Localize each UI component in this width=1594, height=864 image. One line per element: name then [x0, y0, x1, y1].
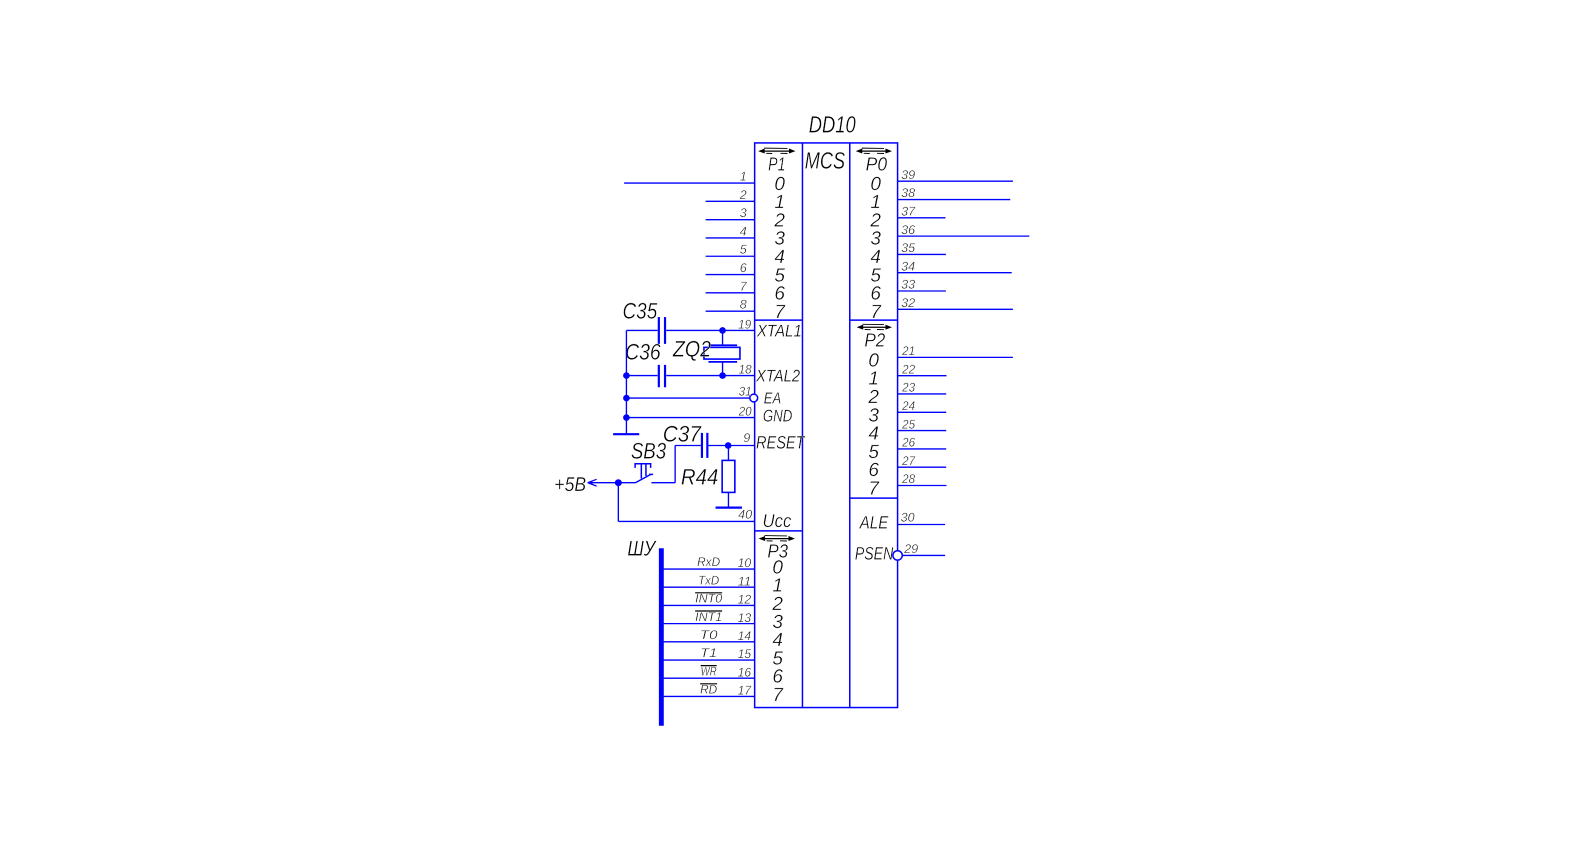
- svg-text:T0: T0: [700, 628, 718, 642]
- wire pin 21 (P2.0): [898, 356, 1013, 358]
- wire pin 18 (XTAL2) left segment: [626, 375, 657, 377]
- pushbutton SB3: [635, 464, 653, 483]
- signal label T0: [700, 628, 718, 642]
- svg-text:22: 22: [901, 362, 915, 376]
- svg-text:XTAL2: XTAL2: [755, 366, 801, 385]
- wire pin 36 (P0.3): [898, 235, 1030, 237]
- svg-text:7: 7: [870, 302, 882, 323]
- wire switch to vertical: [651, 482, 675, 484]
- svg-text:38: 38: [901, 186, 915, 200]
- svg-text:15: 15: [738, 647, 752, 661]
- svg-text:13: 13: [738, 611, 752, 625]
- svg-text:6: 6: [740, 261, 747, 275]
- svg-text:20: 20: [738, 404, 752, 418]
- wire pin 24 (P2.3): [898, 411, 947, 413]
- svg-text:21: 21: [901, 344, 915, 358]
- inversion bubble pin 31 (EA): [750, 394, 758, 402]
- svg-text:39: 39: [901, 168, 915, 182]
- inversion bubble pin 29 (PSEN): [893, 551, 902, 560]
- wire pin 20 (GND): [626, 417, 754, 419]
- junction +5V net: [615, 479, 622, 486]
- svg-text:TxD: TxD: [698, 573, 719, 587]
- svg-text:31: 31: [739, 385, 752, 399]
- svg-text:P1: P1: [768, 155, 785, 176]
- svg-text:RxD: RxD: [697, 555, 720, 569]
- svg-text:PSEN: PSEN: [855, 544, 894, 564]
- signal label RxD: [697, 555, 720, 569]
- wire pin 9 (RESET) cap-to-chip segment: [708, 444, 754, 446]
- svg-text:12: 12: [738, 593, 752, 607]
- wire pin 29 (PSEN): [902, 554, 945, 556]
- wire pin 40 (Ucc): [618, 520, 754, 522]
- svg-text:26: 26: [901, 436, 915, 450]
- wire pin 12 (P3.2 / INT0): [661, 604, 754, 606]
- svg-text:C37: C37: [663, 421, 703, 446]
- wire pin 11 (P3.1 / TxD): [661, 586, 754, 588]
- port P1 bit numbers 0-7: [773, 174, 786, 323]
- junction left net / pin31: [623, 395, 630, 402]
- port P0 bit numbers 0-7: [869, 174, 882, 323]
- wire pin 4 (P1.3): [706, 237, 755, 239]
- junction XTAL1/ZQ2: [719, 327, 726, 334]
- svg-text:ШУ: ШУ: [627, 537, 657, 561]
- svg-text:30: 30: [901, 511, 915, 525]
- svg-text:P0: P0: [866, 155, 888, 176]
- svg-text:23: 23: [901, 381, 915, 395]
- svg-text:RD: RD: [700, 683, 717, 697]
- svg-text:24: 24: [901, 399, 915, 413]
- wire left vertical (XTAL ground net): [625, 330, 627, 434]
- svg-text:MCS: MCS: [805, 148, 846, 174]
- wire pin 30 (ALE): [898, 524, 946, 526]
- wire pin 10 (P3.0 / RxD): [661, 568, 754, 570]
- junction left net / pin18: [623, 372, 630, 379]
- signal label TxD: [698, 573, 719, 587]
- svg-text:ZQ2: ZQ2: [672, 337, 711, 362]
- signal label T1: [700, 646, 717, 660]
- svg-text:+5В: +5В: [554, 474, 586, 496]
- svg-text:7: 7: [868, 478, 880, 499]
- svg-text:P2: P2: [864, 330, 885, 351]
- signal label WR: [701, 664, 717, 678]
- wire pin 3 (P1.2): [706, 219, 755, 221]
- wire pin 1 (P1.0): [624, 182, 755, 184]
- wire pin 15 (P3.5 / T1): [661, 659, 754, 661]
- port P2 bit numbers 0-7: [867, 350, 880, 499]
- svg-text:WR: WR: [701, 664, 717, 678]
- svg-text:C36: C36: [625, 340, 661, 365]
- wire pin 18 (XTAL2) right segment: [666, 375, 754, 377]
- svg-text:16: 16: [738, 665, 752, 679]
- wire pin 17 (P3.7 / RD): [661, 695, 754, 697]
- svg-text:INT0: INT0: [695, 592, 722, 606]
- svg-text:11: 11: [738, 574, 752, 588]
- wire pin 19 (XTAL1) left segment: [626, 329, 657, 331]
- wire pin 32 (P0.7): [898, 308, 1013, 310]
- svg-text:GND: GND: [763, 406, 793, 425]
- ground (R44): [716, 507, 742, 509]
- svg-text:10: 10: [738, 556, 752, 570]
- svg-text:37: 37: [901, 205, 916, 219]
- svg-text:35: 35: [901, 241, 915, 255]
- wire pin 26 (P2.5): [898, 448, 947, 450]
- IC DD10 body outline: [755, 143, 898, 708]
- resistor R44: [722, 445, 735, 507]
- wire pin 37 (P0.2): [898, 217, 946, 219]
- wire pin 13 (P3.3 / INT1): [661, 623, 754, 625]
- wire pin 23 (P2.2): [898, 393, 947, 395]
- svg-text:5: 5: [740, 243, 747, 257]
- svg-text:17: 17: [738, 684, 753, 698]
- signal label INT0: [695, 592, 722, 606]
- svg-text:32: 32: [901, 296, 915, 310]
- svg-text:25: 25: [901, 417, 915, 431]
- signal label RD: [700, 683, 717, 697]
- svg-text:9: 9: [743, 431, 750, 445]
- svg-text:DD10: DD10: [809, 112, 856, 138]
- wire +5V down to Ucc: [617, 483, 619, 522]
- port P1 header bidirectional arrow: [758, 148, 795, 153]
- port P2 header bidirectional arrow: [857, 324, 892, 329]
- svg-text:EA: EA: [764, 390, 781, 407]
- wire pin 33 (P0.6): [898, 290, 946, 292]
- wire pin 25 (P2.4): [898, 430, 947, 432]
- svg-text:3: 3: [740, 206, 747, 220]
- svg-text:18: 18: [739, 362, 752, 376]
- svg-text:7: 7: [774, 302, 786, 323]
- wire pin 19 (XTAL1) right segment: [666, 329, 754, 331]
- svg-text:XTAL1: XTAL1: [756, 322, 802, 341]
- svg-text:C35: C35: [623, 298, 658, 323]
- capacitor C35: [659, 317, 665, 344]
- wire pin 39 (P0.0): [898, 180, 1013, 182]
- wire pin 31 (EA): [626, 397, 750, 399]
- wire pin 38 (P0.1): [898, 199, 1011, 201]
- wire pin 7 (P1.6): [706, 292, 755, 294]
- wire pin 6 (P1.5): [706, 274, 755, 276]
- signal label INT1: [695, 610, 722, 624]
- svg-text:27: 27: [901, 454, 916, 468]
- svg-text:1: 1: [740, 170, 747, 184]
- svg-text:34: 34: [901, 259, 915, 273]
- svg-text:7: 7: [772, 685, 784, 706]
- svg-text:SB3: SB3: [631, 439, 667, 464]
- wire switch to C37 vertical: [674, 445, 676, 482]
- svg-text:Ucc: Ucc: [763, 510, 792, 531]
- wire +5V to switch: [588, 482, 635, 484]
- wire pin 8 (P1.7): [706, 310, 755, 312]
- port P0 header bidirectional arrow: [856, 148, 892, 153]
- svg-text:ALE: ALE: [859, 513, 889, 533]
- crystal ZQ2: [704, 330, 740, 375]
- svg-text:33: 33: [901, 278, 915, 292]
- svg-text:INT1: INT1: [695, 610, 722, 624]
- svg-text:14: 14: [738, 629, 752, 643]
- svg-text:7: 7: [740, 279, 748, 293]
- wire pin 2 (P1.1): [706, 200, 755, 202]
- wire pin 34 (P0.5): [898, 272, 1012, 274]
- svg-text:28: 28: [901, 472, 915, 486]
- port P3 bit numbers 0-7: [771, 557, 784, 705]
- wire pin 35 (P0.4): [898, 253, 946, 255]
- junction RESET/R44: [725, 442, 732, 449]
- svg-text:29: 29: [903, 542, 918, 556]
- junction XTAL2/ZQ2: [719, 372, 726, 379]
- svg-text:T1: T1: [700, 646, 717, 660]
- svg-text:19: 19: [738, 317, 751, 331]
- capacitor C36: [659, 365, 665, 387]
- wire pin 16 (P3.6 / WR): [661, 677, 754, 679]
- wire pin 27 (P2.6): [898, 466, 947, 468]
- wire C37 left segment: [675, 444, 701, 446]
- wire pin 28 (P2.7): [898, 484, 947, 486]
- junction left net / pin20: [623, 414, 630, 421]
- bus ShU (thick vertical bus bar): [659, 548, 664, 725]
- svg-text:8: 8: [740, 298, 747, 312]
- power +5B arrow: [588, 479, 597, 486]
- svg-text:2: 2: [739, 188, 747, 202]
- wire pin 14 (P3.4 / T0): [661, 641, 754, 643]
- svg-text:36: 36: [901, 223, 915, 237]
- svg-text:R44: R44: [681, 464, 719, 489]
- wire pin 22 (P2.1): [898, 375, 947, 377]
- wire pin 5 (P1.4): [706, 255, 755, 257]
- ground (XTAL net): [613, 433, 639, 435]
- svg-text:4: 4: [740, 224, 747, 238]
- svg-text:40: 40: [738, 507, 752, 521]
- port P3 header bidirectional arrow: [759, 536, 795, 541]
- svg-text:RESET: RESET: [756, 432, 806, 452]
- capacitor C37: [702, 433, 707, 458]
